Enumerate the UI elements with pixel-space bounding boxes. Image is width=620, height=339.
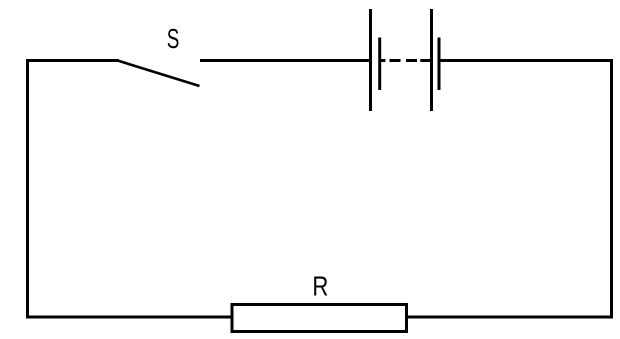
svg-text:R: R xyxy=(312,271,328,302)
svg-text:S: S xyxy=(167,23,180,54)
